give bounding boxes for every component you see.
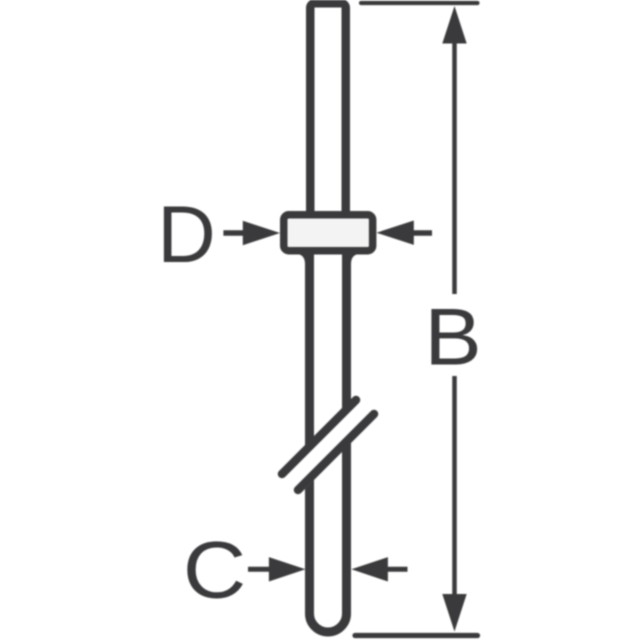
break band mask	[280, 394, 380, 492]
dim D left arrowhead	[243, 221, 280, 245]
break line lower	[298, 414, 374, 490]
break line upper	[282, 400, 356, 474]
dim D right tail	[411, 230, 432, 236]
pin upper shaft	[310, 3, 346, 218]
pin lower shaft with rounded tip	[310, 235, 347, 632]
collar flange	[284, 215, 373, 251]
dim B top extension line	[361, 1, 478, 5]
dim C left tail	[248, 567, 272, 572]
dim B arrowhead down	[442, 594, 466, 632]
dim B bottom extension line	[355, 633, 478, 638]
dim B vertical line upper segment	[452, 40, 457, 294]
fillet right at collar base	[343, 255, 357, 267]
svg-text:B: B	[424, 293, 481, 383]
fillet left at collar base	[300, 255, 314, 267]
dim B arrowhead up	[442, 6, 466, 44]
dim D right arrowhead	[377, 221, 414, 245]
svg-text:C: C	[183, 526, 246, 616]
dim D left tail	[223, 230, 246, 236]
dim B vertical line lower segment	[452, 376, 457, 597]
dim C right tail	[385, 567, 408, 572]
dim C right arrowhead	[351, 557, 388, 581]
svg-text:D: D	[157, 190, 216, 280]
dim C left arrowhead	[269, 557, 306, 581]
